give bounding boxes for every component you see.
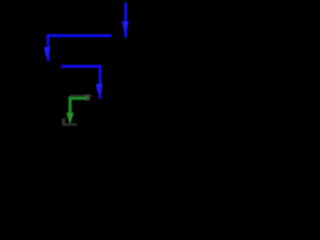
node: dark box corner below green arrow [62,118,77,126]
node: small gray block at right end of green connector [85,95,90,101]
wire: blue elbow connector D-E (horizontal then down at right) [61,65,103,99]
wire: blue vertical connector A (top center) [122,3,129,38]
wire: blue elbow connector B-C (horizontal then down at left) [44,34,112,61]
arrowhead on connector A (pointing down) [122,21,129,30]
arrowhead on connector C (pointing down) [44,47,51,56]
arrowhead on connector E (pointing down) [96,84,103,93]
arrowhead on green connector (pointing down) [66,113,74,125]
node: gray edge above green connector start [70,95,92,96]
wire: green elbow connector F (horizontal then down, with arrowhead) [66,97,86,125]
